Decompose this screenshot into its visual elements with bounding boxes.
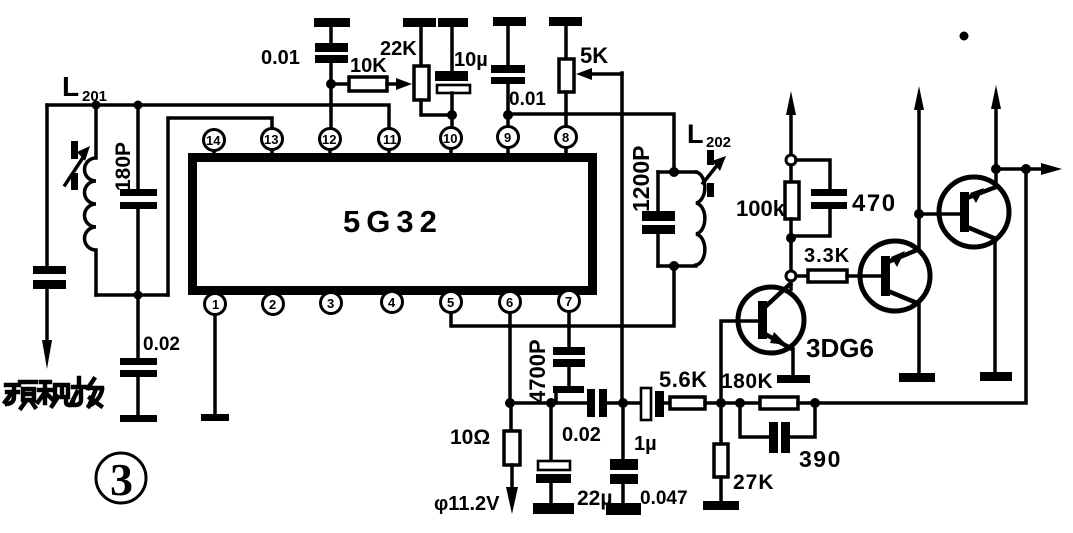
transistor Q1 3DG6: [738, 284, 804, 353]
wire 27K bottom lead: [719, 477, 723, 501]
wire 180P bottom lead: [136, 209, 140, 295]
svg-text:14: 14: [206, 133, 221, 148]
label 预视放 (pre-video amp): [5, 378, 102, 408]
svg-text:13: 13: [264, 132, 278, 147]
svg-text:1µ: 1µ: [634, 433, 657, 455]
svg-text:3: 3: [110, 454, 133, 505]
wire 100K bottom lead: [789, 219, 793, 271]
resistor R 10ohm: [504, 431, 520, 465]
node 390 left junction: [735, 398, 745, 408]
wire output line: [996, 167, 1044, 171]
wire top rail L201 to pin11: [47, 105, 389, 128]
wire 3.3K to Q2 base: [847, 274, 881, 278]
wire 10ohm bottom: [510, 465, 514, 488]
node pin6 junction: [505, 398, 515, 408]
arrow down 11.2V: [506, 487, 518, 514]
wire junction to 470: [796, 160, 830, 189]
label L202: [687, 119, 731, 151]
svg-text:390: 390: [799, 446, 842, 472]
svg-text:202: 202: [706, 134, 731, 151]
capacitor C 10u electrolytic: [435, 71, 470, 93]
wire junction to 3.3K: [796, 274, 808, 278]
trimmer arrow of L202: [703, 150, 726, 197]
wire 22K bottom to pin10 junction: [421, 100, 452, 115]
inductor L201: [85, 105, 97, 295]
svg-text:11: 11: [383, 132, 397, 147]
char 放: [72, 378, 87, 405]
wire 1200P bottom lead: [656, 234, 660, 266]
node 100K bottom junction: [786, 233, 796, 243]
svg-text:5: 5: [447, 295, 454, 310]
wire 0.01 down to pin9: [506, 84, 510, 126]
ground under Q2: [899, 373, 935, 382]
svg-text:4: 4: [388, 295, 396, 310]
svg-text:180K: 180K: [721, 370, 773, 393]
pin 9: [498, 127, 519, 153]
svg-text:8: 8: [562, 130, 569, 145]
trimmer arrow of L201: [65, 141, 90, 190]
char 视: [38, 382, 52, 403]
node base junction: [716, 398, 726, 408]
svg-text:3: 3: [327, 296, 334, 311]
wire 470 bottom lead: [793, 209, 830, 236]
wire Q3 emitter down: [993, 239, 997, 372]
arrow output right: [1041, 163, 1062, 175]
node tank2 bottom junction: [669, 261, 679, 271]
pin 6: [500, 288, 521, 313]
wiper arrow of 5K: [576, 68, 622, 80]
wire stub to 0.01: [329, 27, 333, 43]
wire 0.01 down to pin12: [329, 63, 333, 128]
svg-text:L: L: [687, 119, 704, 149]
node 180P top junction: [134, 101, 143, 110]
ground under Q1: [777, 375, 810, 383]
wire Q3 collector up: [994, 169, 998, 186]
ground bar above 0.01 pin9: [493, 17, 526, 26]
ground under pin1: [201, 414, 229, 421]
wire tank2 top rail: [658, 170, 696, 174]
wire pin9 junction to tank L202: [508, 114, 674, 172]
pin 3: [321, 288, 342, 314]
svg-text:10: 10: [443, 131, 457, 146]
svg-text:5G32: 5G32: [343, 204, 443, 239]
ground under 27K: [703, 501, 739, 510]
ground under 22u: [533, 503, 574, 514]
pin 8: [556, 127, 577, 153]
wire 22u top lead: [549, 403, 553, 460]
wire Q1 collector up to junction: [789, 281, 793, 289]
ground bar above 5K: [549, 17, 582, 26]
transistor Q2: [860, 241, 930, 311]
pin 7: [559, 288, 580, 312]
resistor R 22K (pot): [414, 66, 429, 100]
node feedback junction: [1021, 164, 1031, 174]
node 22u junction: [546, 398, 556, 408]
arrow into 22K wiper: [396, 78, 412, 90]
wire 10K to arrow: [387, 82, 398, 86]
svg-text:3DG6: 3DG6: [806, 333, 874, 363]
wire Q1 emitter down: [791, 349, 795, 375]
pin 14: [204, 130, 225, 153]
wire rail segment 3: [664, 401, 670, 405]
wire 180P top lead: [136, 105, 140, 189]
op-amp/IC U1 5G32 body: [193, 158, 593, 291]
wire tank2 bottom rail: [658, 264, 696, 268]
wire 4700P bottom lead: [567, 367, 571, 386]
svg-text:5K: 5K: [580, 43, 608, 68]
pin 12: [320, 129, 341, 153]
svg-text:180P: 180P: [112, 142, 135, 191]
wire junction to 10ohm: [509, 403, 513, 431]
wire 390 right lead: [790, 403, 815, 437]
bar below 4700P: [553, 386, 584, 393]
svg-text:6: 6: [506, 295, 513, 310]
pin 1: [205, 288, 226, 315]
svg-text:1: 1: [212, 297, 219, 312]
capacitor series left: [33, 266, 66, 289]
wire 22K top lead: [419, 27, 423, 66]
capacitor C 0.01 (pin9): [491, 65, 525, 84]
ground under Q3: [980, 372, 1012, 381]
wire rail segment 2: [607, 401, 641, 405]
wire tank2 to pin5: [451, 266, 674, 326]
wire rail segment 5 feedback: [798, 169, 1026, 403]
svg-text:1200P: 1200P: [628, 145, 654, 212]
capacitor C 470: [811, 189, 847, 209]
wire Q3 base lead: [919, 212, 960, 216]
wire 22u bottom lead: [549, 483, 553, 503]
capacitor C 1200P: [642, 211, 675, 234]
wire bar to rail: [554, 393, 558, 400]
node open junction base Q1: [786, 271, 796, 281]
ground bar above 10u: [438, 18, 468, 27]
wire 10u top lead: [450, 27, 454, 71]
node tank2 top junction: [669, 167, 679, 177]
ground bar above 22K: [403, 18, 436, 27]
wire 5K wiper long vertical: [620, 73, 624, 403]
ground under 0.02: [120, 415, 157, 422]
capacitor 180P: [120, 189, 157, 209]
pin 4: [382, 288, 403, 313]
svg-text:5.6K: 5.6K: [659, 367, 707, 392]
svg-text:φ11.2V: φ11.2V: [434, 493, 500, 515]
inductor L202: [696, 172, 705, 265]
resistor R 3.3K: [808, 270, 847, 282]
svg-text:0.02: 0.02: [562, 424, 601, 446]
svg-text:4700P: 4700P: [525, 339, 550, 403]
capacitor C 390: [769, 422, 790, 453]
node pin12 junction: [326, 79, 336, 89]
ground under 0.047: [606, 503, 641, 515]
pin 5: [441, 288, 462, 313]
svg-text:0.01: 0.01: [509, 89, 546, 110]
wire 5K top lead: [564, 26, 568, 59]
capacitor C 1u electrolytic: [641, 388, 664, 420]
node output junction: [991, 164, 1001, 174]
pin 13: [262, 129, 283, 153]
wire pin13 link: [168, 118, 272, 295]
wire Q1 base lead: [721, 321, 758, 403]
wire pin6 down: [508, 313, 512, 403]
transistor Q3: [939, 177, 1009, 247]
node 0.047 junction: [618, 398, 628, 408]
svg-text:470: 470: [852, 190, 897, 217]
power arrow B: [914, 86, 924, 250]
resistor R 27K: [714, 444, 728, 477]
svg-text:L: L: [62, 71, 79, 102]
wire pin1 to ground: [213, 315, 217, 414]
capacitor C 0.01 (pin12): [315, 43, 348, 63]
wire 0.02 bottom lead: [136, 377, 140, 415]
capacitor C 0.047: [610, 459, 638, 484]
node Q3 base junction: [914, 209, 924, 219]
symbol circled 3: [96, 453, 146, 505]
svg-text:22K: 22K: [380, 38, 417, 60]
wire 5K bottom to pin8: [564, 92, 568, 126]
capacitor C 0.02 mid: [587, 389, 607, 417]
node open junction top: [786, 155, 796, 165]
node tank bottom junction: [134, 291, 143, 300]
power arrow C: [991, 85, 1001, 169]
svg-text:10µ: 10µ: [454, 49, 488, 71]
wire 390 left lead: [740, 403, 769, 437]
resistor R 5K (pot): [559, 59, 574, 92]
pin 10: [441, 128, 462, 153]
wire 100K top lead: [789, 165, 793, 182]
ground bar above 0.01 pin12: [314, 18, 350, 27]
node A junction L201 top: [92, 101, 101, 110]
resistor R 5.6K: [670, 397, 705, 409]
node pin10 junction: [447, 110, 457, 120]
svg-text:7: 7: [565, 294, 572, 309]
resistor R 10K: [349, 77, 387, 91]
wire stub: [506, 26, 510, 65]
pin 11: [379, 129, 400, 153]
wire pin7 down to 4700P: [567, 312, 571, 347]
wire 0.047 top lead: [621, 403, 625, 459]
node pin9 junction: [503, 110, 513, 120]
wire 27K top lead: [719, 403, 723, 444]
wire 1200P top lead: [656, 172, 660, 211]
svg-text:9: 9: [504, 130, 511, 145]
svg-text:0.047: 0.047: [640, 488, 688, 509]
wire 10u bottom to pin10: [450, 93, 454, 127]
label L201: [62, 71, 107, 105]
pin 2: [263, 288, 284, 315]
svg-text:10Ω: 10Ω: [450, 426, 490, 449]
resistor R 180K: [760, 397, 798, 409]
svg-text:27K: 27K: [733, 471, 775, 494]
resistor R 100K: [785, 182, 799, 219]
wire rail segment 4: [705, 401, 760, 405]
wire bottom rail of tank: [96, 293, 168, 297]
wire 0.047 bottom lead: [621, 484, 625, 503]
node 390 right junction: [810, 398, 820, 408]
svg-text:12: 12: [322, 132, 336, 147]
svg-text:100k: 100k: [736, 196, 786, 221]
wire left branch: [45, 105, 49, 266]
capacitor C 22u electrolytic: [536, 461, 571, 483]
wire 0.02 top lead: [136, 295, 140, 358]
wire main bottom rail segment 1: [510, 401, 587, 405]
svg-text:3.3K: 3.3K: [804, 245, 850, 267]
capacitor C 4700P: [553, 347, 585, 367]
capacitor 0.02 left: [120, 358, 157, 377]
arrow down to pre-video amp: [42, 340, 52, 369]
wire Q2 emitter down: [917, 303, 921, 373]
svg-text:0.02: 0.02: [143, 334, 180, 355]
wire below left capacitor: [45, 289, 49, 344]
wire junction to 10K: [331, 82, 349, 86]
svg-text:2: 2: [269, 297, 276, 312]
char 预: [5, 385, 19, 404]
power arrow A: [786, 91, 796, 160]
svg-text:0.01: 0.01: [261, 47, 300, 69]
